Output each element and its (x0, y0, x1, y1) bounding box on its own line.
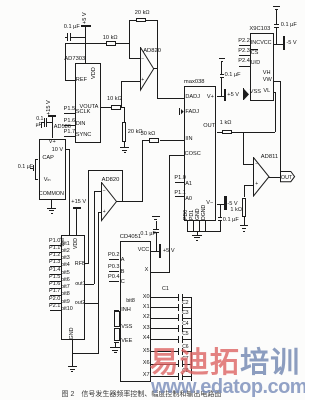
power -5V at U6 V- pin (217, 204, 225, 205)
node P0.2 to U8 A (108, 253, 120, 259)
power +5V supply for U1 AD7303 (83, 9, 89, 24)
wire U8 X6 to capacitor C7 (151, 364, 179, 365)
capacitor C3 (178, 314, 179, 321)
capacitor C4 (178, 325, 179, 332)
chip U4 DAC (61, 235, 86, 340)
capacitor C7 (178, 360, 179, 367)
node P2.4 to U9 U/D (238, 59, 250, 65)
resistor R1 10 kOhm (REF to op-amp U2 inverting input) (106, 41, 116, 46)
op-amp U2 AD820 (DADJ driver) (140, 47, 155, 92)
wire U9 VL to OUT node (274, 92, 276, 93)
resistor R9 at U8 VSS to VEE (114, 328, 120, 329)
watermark red text (150, 348, 301, 378)
capacitor C1 (178, 294, 179, 301)
op-amp U7 AD811 output buffer (253, 157, 271, 198)
node P1.5 to U1 SCLK (64, 107, 76, 113)
wire U4 out1 to U5 inverting input (85, 284, 94, 285)
ground below U6 bus (197, 231, 198, 234)
node P1.1 to U4 bit2 (49, 246, 61, 252)
wire U4 out2 to U5 non-inverting input (85, 303, 98, 304)
ground below R4 (124, 142, 125, 147)
wire capacitor common rail (191, 297, 192, 381)
capacitor C5 (178, 336, 179, 343)
node U8 X2 pin (143, 315, 150, 321)
wire U8 X0 to capacitor C1 (151, 297, 179, 298)
node P1.7 to U1 SYNC (64, 130, 76, 136)
ground below U4 GND (72, 340, 73, 366)
power -5V at U9 VCC pin (274, 44, 283, 45)
watermark blue url (151, 377, 307, 398)
resistor R8 at U8 INH to VSS (114, 310, 120, 311)
wire U4 RFB to U5 output (feedback) (85, 263, 89, 264)
node U8 X5 pin (143, 349, 150, 355)
node U8 X6 pin (143, 361, 150, 367)
ground below U3 COMMON (51, 200, 52, 208)
wire C2 to common rail (183, 307, 192, 308)
node U8 X7 pin (143, 373, 150, 379)
power +5V at U6 V+ pin (217, 96, 224, 97)
resistor R6 1 kOhm from OUT (222, 130, 232, 135)
capacitor 0.1 uF at U3 CAP pin (18, 165, 33, 171)
wire U3 10V output to U4 Vref (66, 149, 70, 150)
node P0.4 to U8 C (108, 275, 120, 281)
wire C6 to common rail (183, 351, 192, 352)
wire C3 to common rail (183, 318, 192, 319)
wire U5 output to R5 (116, 201, 142, 202)
op-amp U5 AD820 (IIN driver) (101, 182, 118, 222)
wire U8 X3 to capacitor C4 (151, 328, 179, 329)
wire U8 X2 to capacitor C3 (151, 318, 179, 319)
chip U3 AD586 voltage reference (39, 139, 66, 200)
chip U8 CD4051 analog multiplexer (120, 241, 151, 383)
node U8 X1 pin (143, 305, 150, 311)
node P1.0 to U4 bit1 (49, 239, 61, 245)
node P1.0 to U6 A1 (174, 176, 186, 182)
resistor R4 20 kOhm to ground (124, 107, 125, 122)
wire REF feedback loop top (65, 43, 106, 44)
node P0.3 to U8 B (108, 265, 120, 271)
power +15V supply for U3 AD586 (47, 99, 53, 115)
chip U6 MAX038 function generator (184, 86, 217, 221)
capacitor 0.1 uF at U8 VCC with top ground (140, 232, 155, 238)
wire U8 X4 to capacitor C5 (151, 339, 179, 340)
wire C4 to common rail (183, 328, 192, 329)
capacitor 0.1 uF at U6 V+ with top ground (225, 73, 241, 79)
node P1.3 to U4 bit4 (49, 260, 61, 266)
node P1.2 to U4 bit3 (49, 253, 61, 259)
resistor R3 10 kOhm from VOUTA (111, 105, 121, 110)
node P2.3 to U9 CS (238, 49, 250, 55)
power +15V supply for U4 VDD (71, 200, 86, 206)
node U8 X3 pin (143, 326, 150, 332)
node U8 X0 pin (143, 295, 150, 301)
capacitor C6 (178, 348, 179, 355)
wire U6 COSC to U8 X common (169, 155, 184, 156)
wire C7 to common rail (183, 364, 192, 365)
marker at U9 VSS pin (243, 88, 244, 100)
power +5V at U8 VCC (151, 251, 159, 252)
node P2.1 to U4 bit10 (49, 304, 61, 310)
capacitor C1 label (162, 287, 169, 293)
ground below U8 VEE network (115, 342, 116, 347)
wire U8 X1 to capacitor C2 (151, 307, 179, 308)
wire R1 to inverting input of U2 (116, 43, 130, 44)
node P1.6 to U1 DIN (64, 119, 76, 125)
wire C1 to common rail (183, 297, 192, 298)
wire U6 OUT to R6 (217, 132, 222, 133)
node P2.2 to U9 INC (238, 39, 250, 45)
node P1.6 to U4 bit7 (49, 282, 61, 288)
connector OUT flag (280, 171, 296, 183)
wire U1 VOUTA to divider (101, 107, 111, 108)
wire U8 X7 to capacitor C8 (151, 376, 179, 377)
wire U7 output to OUT connector (269, 177, 280, 178)
wire U7 non-inverting input to R7 (244, 185, 254, 186)
node P1.5 to U4 bit6 (49, 275, 61, 281)
capacitor 0.1 uF below U6 V- bar (223, 218, 239, 224)
resistor R2 20 kOhm feedback of U2 (136, 18, 146, 23)
capacitor C8 (178, 373, 179, 380)
chip U1 AD7303 DAC (75, 63, 101, 143)
node P1.4 to U4 bit5 (49, 268, 61, 274)
caption text (62, 391, 222, 398)
chip U9 X9C103 digital potentiometer (250, 33, 274, 101)
wire C8 to common rail (183, 376, 192, 377)
resistor R5 30 kOhm to IIN (142, 140, 149, 141)
wire OUT node down to U7 inverting input (243, 132, 244, 165)
wire U9 VW to U7 output (274, 81, 281, 82)
capacitor 0.1 uF at U9 with top ground (281, 23, 297, 29)
capacitor 0.1 uF decoupling at U1 VDD (64, 25, 80, 31)
node U8 X4 pin (143, 336, 150, 342)
wire U8 X5 to capacitor C6 (151, 351, 179, 352)
resistor R7 1 kOhm to ground (242, 198, 246, 218)
node P1.1 to U6 A0 (174, 191, 186, 197)
marker at U6 FADJ input (179, 108, 180, 114)
wire C5 to common rail (183, 339, 192, 340)
wire U6 digital ground bus (187, 231, 221, 232)
wire U2 output feedback and to DADJ (157, 20, 158, 99)
node P1.7 to U4 bit8 (49, 289, 61, 295)
svg-text:OUT: OUT (280, 175, 292, 181)
wire divider node to U2 non-inverting input (121, 81, 122, 109)
capacitor 0.1 uF decoupling at +15V (36, 117, 43, 122)
node P2.0 to U4 bit9 (49, 297, 61, 303)
capacitor C2 (178, 304, 179, 311)
ground below R7 (244, 217, 245, 225)
